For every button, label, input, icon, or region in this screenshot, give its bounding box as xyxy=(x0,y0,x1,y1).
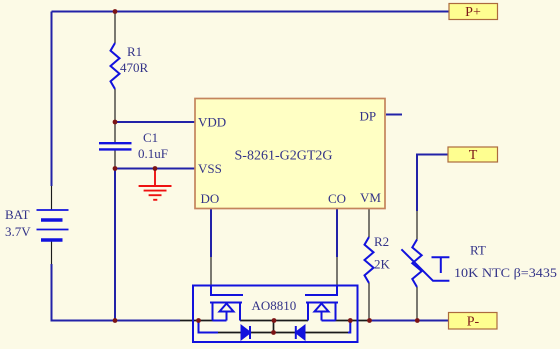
svg-text:VDD: VDD xyxy=(198,115,226,130)
svg-text:RT: RT xyxy=(470,243,486,258)
svg-text:VSS: VSS xyxy=(198,161,222,176)
svg-text:0.1uF: 0.1uF xyxy=(138,146,168,161)
svg-text:BAT: BAT xyxy=(5,207,30,222)
svg-text:3.7V: 3.7V xyxy=(5,224,31,239)
svg-text:S-8261-G2GT2G: S-8261-G2GT2G xyxy=(235,149,333,164)
svg-text:VM: VM xyxy=(360,190,381,205)
svg-text:10K NTC β=3435: 10K NTC β=3435 xyxy=(454,265,557,280)
svg-text:C1: C1 xyxy=(143,130,158,145)
svg-text:2K: 2K xyxy=(374,257,391,272)
svg-text:P-: P- xyxy=(467,315,480,330)
svg-text:R1: R1 xyxy=(127,44,142,59)
svg-text:P+: P+ xyxy=(465,5,481,20)
svg-text:470R: 470R xyxy=(120,60,149,75)
svg-text:AO8810: AO8810 xyxy=(252,298,297,313)
svg-text:DO: DO xyxy=(201,191,220,206)
svg-text:T: T xyxy=(469,148,478,163)
svg-text:CO: CO xyxy=(328,191,346,206)
svg-text:DP: DP xyxy=(360,109,377,124)
svg-text:R2: R2 xyxy=(374,234,389,249)
